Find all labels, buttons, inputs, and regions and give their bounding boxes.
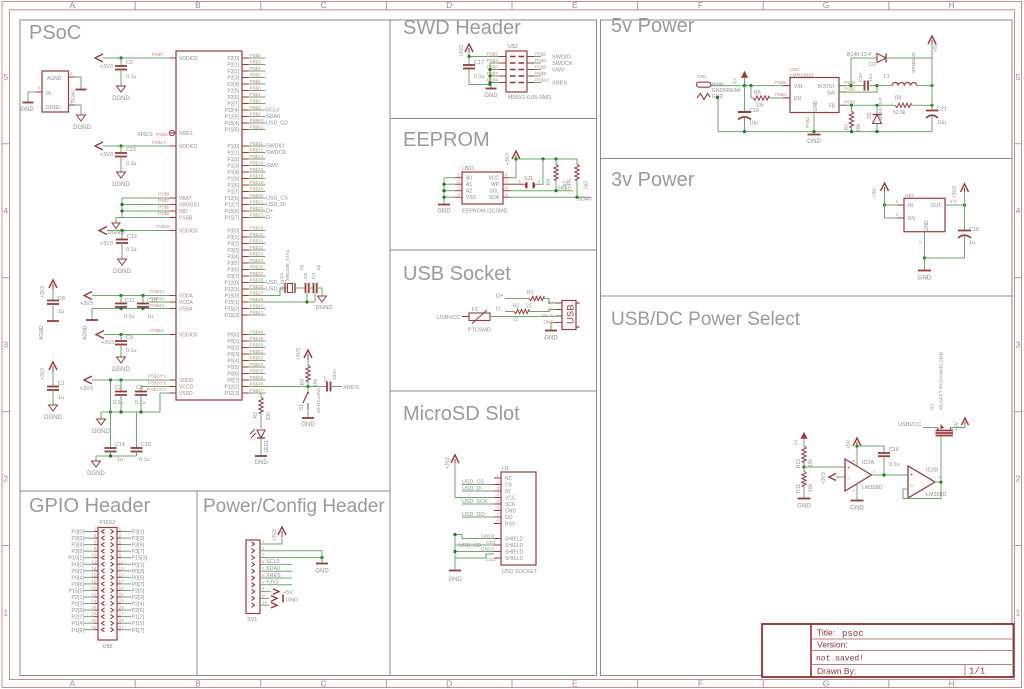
svg-text:A: A (69, 678, 75, 688)
svg-text:4: 4 (3, 206, 8, 216)
svg-text:0.1u: 0.1u (126, 348, 137, 354)
svg-text:P3[6]: P3[6] (71, 549, 84, 555)
svg-text:0.1u: 0.1u (139, 457, 150, 463)
svg-text:P0[3]: P0[3] (132, 569, 145, 575)
svg-text:DGND: DGND (87, 471, 105, 477)
section box PSoC (20, 20, 390, 491)
ground DGND crystal (318, 296, 327, 302)
capacitor C3 (140, 387, 142, 392)
svg-text:P5$4: P5$4 (250, 112, 262, 118)
svg-text:P1[6]: P1[6] (71, 628, 84, 634)
svg-text:P1[6]: P1[6] (227, 183, 239, 189)
svg-text:P5$10: P5$10 (156, 132, 170, 138)
svg-text:GND: GND (850, 505, 864, 512)
svg-text:R4: R4 (546, 179, 552, 186)
svg-text:P2[7]: P2[7] (71, 615, 84, 621)
svg-text:C14: C14 (115, 442, 125, 448)
junction rail R7 (850, 130, 853, 133)
pin right P5$8 (527, 75, 534, 77)
svg-text:EN: EN (794, 96, 801, 102)
ground DGND U$6 pin1 (77, 115, 86, 121)
pin right P5$10 (527, 82, 534, 84)
junction C11 top (119, 294, 122, 297)
svg-text:USD_DI: USD_DI (462, 486, 482, 492)
svg-text:+3V3: +3V3 (101, 340, 114, 346)
svg-text:P1[2]: P1[2] (132, 615, 145, 621)
pin USB D+ (555, 302, 562, 304)
resistor R8 (895, 103, 911, 107)
pin right P5$4 (527, 62, 534, 64)
svg-text:17: 17 (119, 579, 125, 585)
section box SWD Header (390, 20, 597, 119)
ground AGND at VSSA (91, 309, 93, 321)
junction rail SJ1 (541, 157, 544, 160)
svg-text:XRES: XRES (137, 132, 153, 138)
capacitor C15 (136, 412, 138, 448)
wire GND3 (455, 535, 494, 539)
op IC U$6 ground tie body (42, 71, 69, 112)
svg-text:F1: F1 (472, 307, 478, 313)
svg-text:U$2: U$2 (508, 44, 518, 50)
wire gnd link 3v (925, 257, 965, 259)
svg-text:P5$3: P5$3 (844, 100, 856, 106)
svg-text:F16X2: F16X2 (100, 520, 115, 526)
svg-text:P5$1: P5$1 (250, 92, 262, 98)
svg-text:P5$44: P5$44 (150, 289, 164, 295)
wire D2 branch up (850, 58, 852, 86)
wire crystal P5$27 (266, 288, 286, 296)
svg-text:GND1: GND1 (481, 546, 495, 552)
svg-text:4: 4 (1016, 206, 1021, 216)
svg-text:P3[2]: P3[2] (71, 536, 84, 542)
svg-text:USD_CD: USD_CD (266, 121, 288, 127)
svg-text:USD_CS: USD_CS (462, 479, 484, 485)
svg-text:P1[0]: P1[0] (227, 144, 239, 150)
svg-text:13: 13 (119, 566, 125, 572)
junction IC2B out (939, 480, 942, 483)
svg-text:P5$36: P5$36 (250, 265, 264, 271)
pin left P5$5 (499, 69, 506, 71)
svg-text:P5$27: P5$27 (250, 291, 264, 297)
svg-text:U$4: U$4 (905, 193, 914, 199)
wire USB GND (551, 323, 555, 331)
wire C5 bottom stub (306, 293, 308, 302)
svg-text:P0[3]: P0[3] (227, 352, 239, 358)
svg-text:P5$56: P5$56 (250, 375, 264, 381)
svg-text:1: 1 (119, 527, 122, 533)
resistor R11 (802, 471, 806, 486)
op-amp IC2B (908, 466, 935, 498)
connector USB body (562, 301, 576, 330)
svg-text:D-: D- (496, 307, 502, 313)
svg-text:20: 20 (91, 585, 97, 591)
svg-text:SJ1: SJ1 (524, 176, 533, 182)
svg-text:P5$5: P5$5 (158, 211, 170, 217)
svg-text:C: C (320, 0, 326, 10)
svg-text:+3V3: +3V3 (272, 529, 278, 541)
capacitor C6 (120, 58, 122, 66)
svg-text:P5$46: P5$46 (250, 382, 264, 388)
junction C9 (119, 333, 122, 336)
svg-text:+3V3: +3V3 (80, 386, 93, 392)
crystal XRCGB_XTAL (284, 283, 286, 293)
wire C20 to node (868, 85, 877, 87)
svg-text:USB/DC Power Select: USB/DC Power Select (611, 309, 801, 330)
wire VDDD (92, 379, 170, 381)
svg-text:D-: D- (266, 215, 272, 221)
svg-text:P5$4: P5$4 (535, 58, 547, 64)
svg-text:P0[0]: P0[0] (71, 562, 84, 568)
svg-text:P5$29: P5$29 (250, 226, 264, 232)
svg-text:P15[3]: P15[3] (132, 556, 148, 562)
wire P12[3] to R3 (261, 393, 266, 397)
junction C12 (120, 229, 123, 232)
svg-text:P3[7]: P3[7] (227, 274, 239, 280)
svg-text:4*2: 4*2 (950, 199, 957, 204)
ground GND 3v (918, 270, 931, 272)
ground GND IC2A (851, 500, 864, 502)
svg-text:5: 5 (119, 540, 122, 546)
svg-text:USD_SCK: USD_SCK (462, 499, 488, 505)
svg-text:P5$52: P5$52 (150, 328, 164, 334)
svg-text:GND: GND (484, 93, 498, 99)
wire SCL0 (260, 563, 292, 565)
svg-text:A1: A1 (466, 182, 472, 188)
svg-text:P2[0]: P2[0] (132, 588, 145, 594)
svg-text:+5V: +5V (846, 439, 852, 449)
svg-text:P1[5]: P1[5] (132, 621, 145, 627)
svg-text:P5$51: P5$51 (250, 349, 264, 355)
wire +5V to IN (884, 191, 886, 205)
wire crystal ground link (308, 301, 315, 303)
svg-text:2: 2 (918, 240, 923, 243)
svg-text:R8: R8 (895, 96, 902, 102)
svg-text:10u: 10u (749, 121, 758, 127)
svg-text:AGND: AGND (83, 325, 89, 340)
pin left P5$3 (499, 62, 506, 64)
svg-text:C21: C21 (937, 107, 947, 113)
svg-text:psoc: psoc (842, 629, 864, 639)
fuse F1 (469, 313, 490, 321)
pin 5 of SV1 (252, 569, 255, 573)
wire VCCD (141, 386, 170, 388)
node +3V3 arrow at VDDIO1 (95, 142, 103, 150)
junction A2 (442, 189, 445, 192)
svg-text:32: 32 (91, 625, 97, 631)
svg-text:P0[7]: P0[7] (132, 582, 145, 588)
svg-text:2: 2 (496, 480, 499, 485)
wire +3V3 to IC2A- (836, 476, 845, 478)
junction VDDD-C14 (109, 378, 112, 381)
svg-text:P5$6: P5$6 (158, 205, 170, 211)
svg-text:USD_DI: USD_DI (266, 202, 286, 208)
resistor R3 (259, 397, 263, 413)
svg-text:10k: 10k (313, 379, 319, 388)
svg-text:XRES: XRES (552, 80, 568, 86)
ground DGND VSSB (115, 218, 117, 224)
junction +5V node (930, 84, 933, 87)
node +5V arrow pin8 (260, 591, 271, 593)
svg-text:P5$31: P5$31 (250, 239, 264, 245)
svg-text:SCL0: SCL0 (557, 186, 571, 192)
svg-text:USD_CS: USD_CS (266, 196, 288, 202)
pin 3 of SV1 (252, 555, 255, 559)
section box EEPROM (390, 119, 597, 251)
svg-text:SWDCK: SWDCK (266, 150, 286, 156)
node +5V arrow IC2A (853, 438, 861, 446)
svg-text:10k: 10k (856, 124, 862, 133)
junction GND 3v (923, 256, 926, 259)
svg-text:P0[5]: P0[5] (132, 575, 145, 581)
junction VSS (442, 196, 445, 199)
svg-text:6: 6 (94, 540, 97, 546)
svg-text:P12[6]: P12[6] (225, 196, 240, 202)
svg-text:MOSFET-PCHANNELSMD: MOSFET-PCHANNELSMD (939, 351, 945, 410)
svg-text:P5$8: P5$8 (250, 86, 262, 92)
svg-text:P5$3: P5$3 (250, 105, 262, 111)
wire VSSB (116, 217, 170, 219)
pin right P5$2 (527, 56, 534, 58)
wire C7 to XRES label (331, 386, 343, 388)
svg-text:+3V3: +3V3 (40, 368, 46, 380)
svg-text:0.1u: 0.1u (126, 161, 137, 167)
svg-text:P0[2]: P0[2] (227, 346, 239, 352)
svg-text:SWV: SWV (552, 67, 565, 73)
svg-text:24: 24 (91, 599, 97, 605)
wire USBVCC to Q1 (923, 427, 938, 429)
svg-text:P5$2: P5$2 (250, 99, 262, 105)
wire SDA0 (510, 196, 591, 198)
pin 1 of U$6 (69, 104, 76, 106)
svg-text:Q1: Q1 (929, 403, 935, 410)
wire pin5 (490, 69, 499, 71)
svg-text:Version:: Version: (817, 640, 848, 650)
wire VDDIO1 (103, 145, 170, 147)
wire USD_DI (462, 490, 494, 492)
svg-text:22: 22 (513, 317, 519, 323)
node +3V3 arrow microSD (451, 455, 459, 463)
wire SV1 pin3 (260, 557, 322, 559)
section box MicroSD Slot (390, 391, 597, 676)
svg-text:P5$18: P5$18 (250, 180, 264, 186)
svg-text:−: − (847, 476, 850, 482)
svg-text:P5$6: P5$6 (535, 65, 547, 71)
svg-text:21: 21 (119, 592, 125, 598)
ground GND EEPROM (438, 204, 450, 206)
op IC U$3 regulator body (790, 78, 839, 113)
wire SV1 pin2 (260, 551, 322, 558)
svg-text:7: 7 (119, 546, 122, 552)
connector U1 microSD body (501, 472, 536, 565)
svg-text:VDDIO3: VDDIO3 (179, 229, 198, 235)
svg-text:WP: WP (491, 182, 500, 188)
wire crystal P5$26 (266, 301, 309, 303)
section box GPIO Header (20, 491, 197, 676)
svg-text:15: 15 (119, 572, 125, 578)
op IC U$11 EEPROM body (462, 172, 503, 204)
svg-text:0.1u: 0.1u (474, 74, 485, 80)
svg-text:SHIELD: SHIELD (505, 543, 523, 549)
svg-text:P5$38: P5$38 (250, 278, 264, 284)
svg-text:VDDIO2: VDDIO2 (179, 56, 198, 62)
svg-text:10u: 10u (937, 120, 946, 126)
svg-text:C3: C3 (136, 385, 143, 391)
svg-text:P15[1]: P15[1] (225, 300, 240, 306)
svg-text:P5$54: P5$54 (250, 362, 264, 368)
svg-text:4: 4 (94, 533, 97, 539)
svg-text:9: 9 (262, 593, 265, 598)
svg-text:6p: 6p (316, 264, 322, 270)
wire to R6 (750, 86, 752, 98)
ground DGND below C1 (49, 405, 58, 411)
svg-text:DGND: DGND (92, 429, 110, 435)
svg-text:3: 3 (457, 186, 460, 191)
wire GND1 (455, 551, 494, 553)
svg-text:SWDIO: SWDIO (552, 54, 572, 60)
svg-text:+3V3: +3V3 (952, 186, 958, 198)
junction V+ C19 (743, 84, 746, 87)
svg-text:18: 18 (91, 579, 97, 585)
junction A1 (442, 183, 445, 186)
svg-text:5: 5 (3, 72, 8, 82)
svg-text:26: 26 (91, 605, 97, 611)
svg-text:1u: 1u (969, 240, 975, 246)
junction gnd trunk (488, 83, 491, 86)
svg-text:GND: GND (20, 107, 34, 113)
svg-text:+3V3: +3V3 (445, 457, 451, 469)
wire crystal to C5 (295, 287, 306, 289)
wire VCCA (150, 301, 170, 303)
svg-text:P3[4]: P3[4] (227, 255, 239, 261)
svg-text:not saved!: not saved! (816, 655, 864, 664)
svg-text:C19: C19 (749, 108, 759, 114)
svg-text:P5$41: P5$41 (250, 310, 264, 316)
svg-text:LED1: LED1 (264, 440, 270, 453)
section box USB Socket (390, 250, 597, 391)
capacitor C12 (121, 231, 123, 240)
svg-text:3: 3 (1016, 340, 1021, 350)
svg-text:P5$26: P5$26 (250, 297, 264, 303)
svg-text:P5$11: P5$11 (250, 141, 264, 147)
svg-text:P1[1]: P1[1] (227, 151, 239, 157)
svg-text:CN1: CN1 (697, 74, 707, 80)
svg-text:C15: C15 (141, 442, 151, 448)
svg-text:P2[1]: P2[1] (71, 595, 84, 601)
svg-text:GND: GND (807, 138, 821, 145)
svg-text:VCCA: VCCA (179, 300, 194, 306)
wire SW (839, 86, 877, 93)
pin 9 of SV1 (252, 596, 255, 600)
svg-text:P12[5]: P12[5] (225, 115, 240, 121)
svg-text:2: 2 (70, 71, 73, 76)
wire U$6 DGND pin (75, 105, 81, 115)
capacitor C9 (120, 335, 122, 342)
svg-text:12: 12 (91, 559, 97, 565)
svg-text:P5$37: P5$37 (250, 271, 264, 277)
svg-text:P5$23: P5$23 (250, 213, 264, 219)
svg-text:SDA0: SDA0 (266, 114, 280, 120)
junction pin9 (488, 81, 491, 84)
svg-text:P12[1]: P12[1] (225, 287, 240, 293)
svg-text:+5V: +5V (954, 421, 960, 431)
svg-text:IN: IN (908, 203, 913, 209)
svg-text:P2[5]: P2[5] (71, 608, 84, 614)
svg-text:P5$13: P5$13 (250, 154, 264, 160)
pin 6 of SV1 (252, 576, 255, 580)
svg-text:EEPROM: EEPROM (403, 129, 490, 151)
svg-text:P2[1]: P2[1] (227, 63, 239, 69)
wire IND (122, 210, 170, 212)
wire D- to R2 (505, 311, 514, 313)
svg-text:31: 31 (119, 625, 125, 631)
svg-text:−: − (910, 483, 913, 489)
ground DGND below C9 (117, 357, 126, 363)
svg-text:P5$17: P5$17 (152, 140, 166, 146)
svg-text:6: 6 (262, 573, 265, 578)
connector SV1 body (246, 540, 260, 614)
ground GND below LED1 (255, 455, 267, 457)
svg-text:P15[0]: P15[0] (225, 294, 240, 300)
capacitor C19 (744, 86, 746, 112)
svg-text:C5: C5 (303, 273, 309, 279)
title block divider (810, 624, 812, 677)
svg-text:C18: C18 (969, 227, 979, 233)
node +3V3 arrow SWD (465, 44, 473, 52)
junction R6 branch (749, 84, 752, 87)
svg-text:VDDIO0: VDDIO0 (179, 333, 198, 339)
svg-text:M05X2-0.05-SMD: M05X2-0.05-SMD (508, 95, 551, 101)
pin 2 of SV1 (252, 549, 255, 553)
svg-text:P15[6]: P15[6] (225, 209, 240, 215)
svg-text:SHIELD: SHIELD (505, 556, 523, 562)
wire R3 to LED1 (260, 413, 262, 428)
junction C11 bottom (119, 307, 122, 310)
svg-text:P0[6]: P0[6] (71, 582, 84, 588)
svg-text:USD_DO: USD_DO (462, 512, 484, 518)
svg-text:CD2: CD2 (486, 557, 496, 563)
svg-text:D+: D+ (496, 294, 503, 300)
svg-text:P0[0]: P0[0] (227, 333, 239, 339)
svg-text:Q1: Q1 (279, 272, 285, 279)
svg-text:C20: C20 (858, 73, 864, 82)
svg-text:Power/Config Header: Power/Config Header (203, 496, 385, 517)
pin left P5$7 (499, 75, 506, 77)
svg-text:+3V3: +3V3 (40, 286, 46, 298)
svg-text:XRES: XRES (266, 573, 281, 579)
svg-text:P15[4]: P15[4] (225, 121, 240, 127)
svg-text:C6: C6 (126, 60, 133, 66)
wire C14 C15 bottoms (96, 455, 137, 457)
svg-text:P1[7]: P1[7] (227, 190, 239, 196)
capacitor C8 (52, 290, 54, 301)
svg-text:DGND: DGND (46, 105, 61, 111)
svg-text:DGND: DGND (112, 367, 130, 373)
svg-text:Title:: Title: (817, 628, 835, 638)
svg-text:P5$30: P5$30 (250, 232, 264, 238)
svg-text:P5$42: P5$42 (150, 296, 164, 302)
svg-text:P5$43: P5$43 (150, 303, 164, 309)
node +3V3 arrow EEPROM (512, 151, 520, 159)
svg-text:P2[6]: P2[6] (227, 95, 239, 101)
svg-text:P3[5]: P3[5] (227, 261, 239, 267)
svg-text:P5$2: P5$2 (535, 52, 547, 58)
svg-text:2k2: 2k2 (584, 181, 590, 189)
svg-text:P5$14: P5$14 (250, 161, 264, 167)
svg-text:P15[7]: P15[7] (225, 216, 240, 222)
wire VDDA (92, 295, 170, 297)
svg-text:C2: C2 (115, 385, 122, 391)
wire USD_DO (462, 516, 494, 518)
